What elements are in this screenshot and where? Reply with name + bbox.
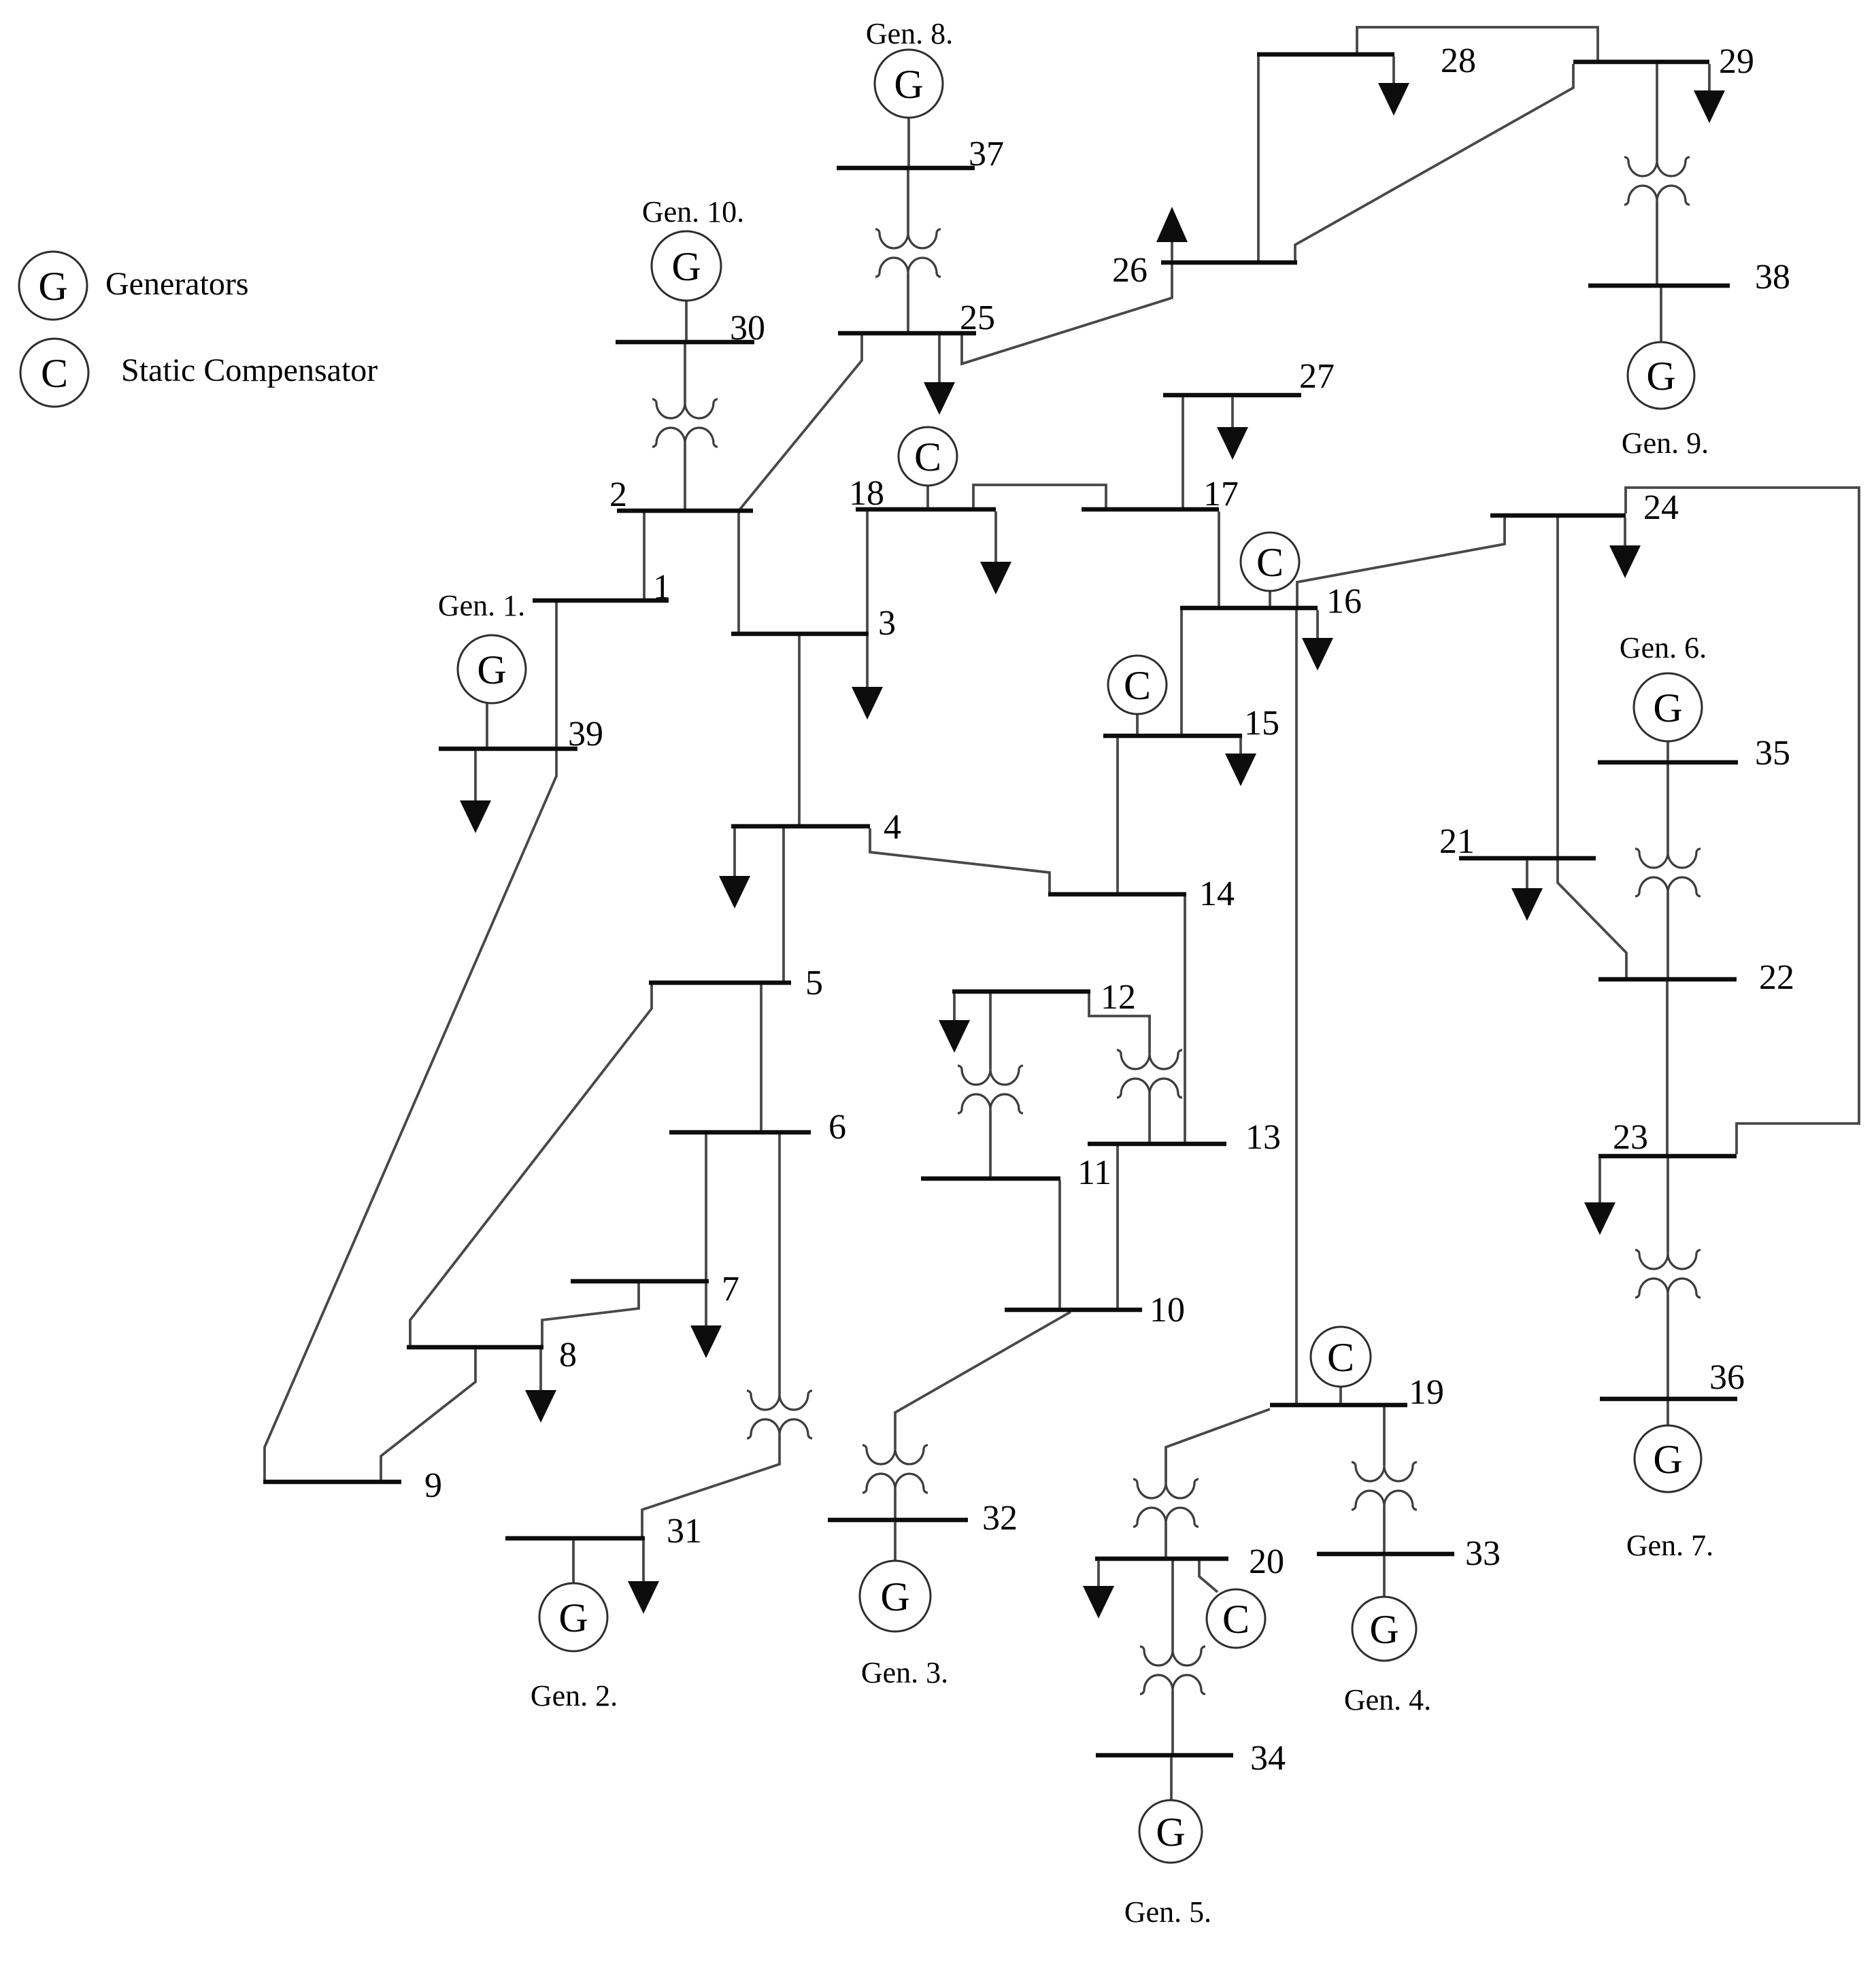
wire 8-9 (381, 1349, 475, 1480)
svg-text:29: 29 (1719, 42, 1754, 81)
svg-text:2: 2 (609, 475, 627, 514)
svg-text:8: 8 (559, 1336, 577, 1374)
svg-text:Gen. 4.: Gen. 4. (1344, 1683, 1431, 1716)
bus 25 bar (838, 331, 976, 336)
load arrow 27 (1217, 397, 1248, 460)
generation arrow 26 (up) (1156, 207, 1188, 260)
svg-text:22: 22 (1759, 958, 1794, 997)
svg-text:25: 25 (960, 299, 995, 337)
wire 39-9 (265, 751, 556, 1480)
bus 2 bar (617, 509, 753, 513)
bus 15 bar (1103, 734, 1242, 739)
bus 12 bar (952, 990, 1090, 994)
svg-text:G: G (880, 1574, 909, 1619)
wire 18-17 (973, 485, 1106, 507)
wire 28-29 (1357, 27, 1598, 60)
transformer 19-33 (1352, 1407, 1417, 1552)
bus 18 bar (856, 507, 996, 512)
wire 7-8 (542, 1283, 639, 1345)
bus 33 bar (1317, 1552, 1454, 1557)
svg-text:30: 30 (730, 309, 765, 348)
svg-text:Generators: Generators (105, 266, 249, 302)
bus 39 bar (439, 747, 577, 751)
svg-text:10: 10 (1150, 1291, 1185, 1330)
wire 26-28 (1257, 56, 1260, 260)
svg-text:28: 28 (1441, 41, 1476, 80)
svg-text:7: 7 (722, 1270, 739, 1308)
wire 4-5 (782, 828, 785, 981)
svg-text:G: G (1653, 686, 1682, 730)
svg-text:C: C (1327, 1335, 1354, 1380)
svg-text:G: G (558, 1595, 588, 1640)
bus 7 bar (571, 1279, 709, 1284)
generator G4 (1352, 1597, 1416, 1661)
svg-text:21: 21 (1439, 822, 1475, 861)
G9 lead (1660, 288, 1662, 342)
wire 4-14 (870, 828, 1050, 892)
bus 35 bar (1598, 760, 1738, 765)
wire 13 link (1148, 1094, 1151, 1142)
svg-text:15: 15 (1244, 704, 1279, 743)
transformer 29-38 (1624, 64, 1690, 284)
G10 lead (685, 301, 688, 340)
bus 21 bar (1459, 856, 1596, 861)
svg-text:27: 27 (1299, 357, 1335, 396)
load arrow 4 (719, 828, 750, 909)
bus 17 bar (1082, 507, 1219, 512)
svg-text:14: 14 (1199, 875, 1235, 913)
bus 1 bar (533, 598, 669, 603)
svg-text:17: 17 (1203, 475, 1239, 513)
wire 13-10 (1116, 1146, 1119, 1308)
wire 31 link (642, 1435, 780, 1536)
svg-text:39: 39 (568, 715, 603, 754)
bus 11 bar (921, 1177, 1060, 1181)
wire 32 link (894, 1489, 897, 1518)
svg-text:24: 24 (1643, 488, 1679, 527)
load arrow 20 (1083, 1561, 1114, 1619)
wire 20 link (1165, 1523, 1167, 1557)
bus 10 bar (1005, 1308, 1142, 1313)
bus 8 bar (407, 1345, 543, 1350)
wire 24-23 (1626, 488, 1859, 1154)
legend compensator symbol (20, 339, 88, 407)
svg-text:Gen. 10.: Gen. 10. (642, 195, 744, 229)
wire 3-4 (798, 636, 801, 824)
wire 15-14 (1116, 738, 1119, 892)
wire 26-29 (1295, 64, 1573, 260)
svg-text:34: 34 (1250, 1739, 1286, 1778)
svg-text:5: 5 (805, 964, 823, 1002)
wire 19-20 link (1166, 1409, 1270, 1483)
svg-text:16: 16 (1326, 582, 1362, 621)
wire 22-23 (1666, 981, 1669, 1154)
svg-text:C: C (1256, 540, 1284, 585)
wire 10-32 link (895, 1312, 1071, 1449)
compensator C18 (899, 427, 957, 486)
compensator C20 (1207, 1589, 1265, 1648)
C16 lead (1269, 591, 1271, 606)
bus 26 bar (1161, 260, 1297, 265)
generator G5 (1139, 1800, 1202, 1863)
svg-text:G: G (1156, 1810, 1185, 1855)
svg-text:31: 31 (667, 1512, 702, 1551)
G7 lead (1666, 1401, 1669, 1425)
svg-text:37: 37 (969, 135, 1004, 173)
svg-text:Gen. 7.: Gen. 7. (1626, 1529, 1713, 1562)
bus 6 bar (669, 1130, 811, 1135)
load arrow 29 (1694, 64, 1725, 123)
bus 5 bar (649, 981, 791, 985)
svg-text:33: 33 (1465, 1534, 1501, 1573)
load arrow 8 (525, 1349, 556, 1423)
generator G7 (1635, 1425, 1701, 1492)
transformer 19-20 coils (1133, 1479, 1199, 1527)
C19 lead (1339, 1387, 1342, 1403)
svg-text:Gen. 2.: Gen. 2. (531, 1679, 618, 1712)
load arrow 16 (1302, 610, 1333, 671)
wire 5-6 (760, 985, 763, 1130)
bus 3 bar (731, 632, 869, 637)
svg-text:Gen. 5.: Gen. 5. (1124, 1895, 1211, 1929)
generator G1 (458, 635, 526, 703)
svg-text:G: G (38, 264, 67, 309)
svg-text:G: G (1646, 354, 1675, 399)
bus 20 bar (1095, 1557, 1228, 1561)
wire 3-18 (866, 511, 869, 632)
svg-text:Gen. 8.: Gen. 8. (866, 17, 953, 50)
bus 23 bar (1598, 1154, 1737, 1159)
svg-text:Gen. 9.: Gen. 9. (1622, 426, 1709, 460)
generator G9 (1628, 342, 1694, 409)
G1 lead (486, 703, 488, 747)
bus 29 bar (1573, 60, 1709, 65)
svg-text:38: 38 (1755, 258, 1790, 297)
G3 lead (894, 1522, 897, 1561)
compensator C15 (1108, 656, 1167, 714)
bus 28 bar (1257, 52, 1394, 57)
svg-text:13: 13 (1245, 1118, 1281, 1157)
bus 32 bar (828, 1518, 968, 1523)
wire 1-39 (555, 603, 558, 747)
load arrow 15 (1225, 738, 1256, 786)
svg-text:19: 19 (1409, 1373, 1444, 1412)
svg-text:36: 36 (1709, 1358, 1745, 1397)
svg-text:G: G (1653, 1437, 1682, 1482)
bus 36 bar (1600, 1397, 1737, 1402)
wire 16-19 (1295, 610, 1298, 1403)
transformer 37-25 (875, 170, 941, 331)
wire 6-31 link (778, 1134, 781, 1394)
svg-text:G: G (1369, 1607, 1398, 1652)
svg-text:1: 1 (653, 568, 671, 607)
load arrow 39 (460, 751, 491, 833)
transformer 35-22 (1635, 764, 1701, 977)
load arrow 23 (1584, 1158, 1615, 1235)
wire 2-3 (737, 513, 740, 632)
svg-text:G: G (894, 62, 923, 107)
wire 1-2 (643, 513, 646, 598)
bus 16 bar (1180, 606, 1318, 611)
load arrow 28 (1378, 56, 1409, 116)
bus 37 bar (837, 166, 975, 171)
wire 24-21-22 (1558, 518, 1626, 977)
transformer 30-2 (652, 344, 718, 509)
load arrow 12 (939, 994, 970, 1053)
svg-text:C: C (1222, 1597, 1250, 1642)
wire 20-C20 link (1199, 1561, 1218, 1592)
G6 lead (1666, 741, 1669, 760)
svg-text:12: 12 (1101, 978, 1136, 1017)
svg-text:G: G (477, 647, 506, 692)
generator G8 (875, 50, 943, 118)
svg-text:20: 20 (1249, 1542, 1284, 1581)
bus 34 bar (1096, 1753, 1233, 1758)
wire 5-8 (410, 985, 652, 1345)
bus 27 bar (1163, 393, 1301, 398)
svg-text:4: 4 (884, 808, 901, 847)
wire 16-24 (1297, 518, 1505, 606)
svg-text:C: C (1124, 663, 1151, 708)
bus 19 bar (1270, 1403, 1407, 1408)
load arrow 25 (924, 335, 955, 415)
bus 38 bar (1588, 284, 1730, 288)
load arrow 31 (628, 1540, 659, 1614)
G2 lead (572, 1540, 575, 1583)
svg-text:C: C (914, 435, 941, 479)
load arrow 7 (690, 1283, 722, 1358)
wire 12-13 link (1089, 994, 1150, 1053)
svg-text:35: 35 (1755, 734, 1790, 773)
bus 4 bar (731, 824, 870, 829)
load arrow 3 (852, 636, 883, 720)
svg-text:23: 23 (1613, 1118, 1648, 1157)
svg-text:6: 6 (828, 1108, 846, 1147)
svg-text:Static Compensator: Static Compensator (121, 352, 378, 388)
legend generator symbol (19, 252, 87, 320)
svg-text:26: 26 (1112, 251, 1148, 290)
wire 17-16 (1218, 511, 1220, 606)
svg-text:11: 11 (1077, 1153, 1111, 1192)
bus 24 bar (1490, 513, 1626, 518)
svg-text:Gen. 3.: Gen. 3. (861, 1656, 948, 1689)
transformer 20-34 (1140, 1561, 1205, 1753)
G8 lead (907, 118, 910, 166)
wire 16-15 (1180, 610, 1183, 734)
G4 lead (1383, 1556, 1386, 1597)
bus 30 bar (616, 340, 754, 345)
load arrow 21 (1511, 860, 1543, 921)
load arrow 24 (1609, 518, 1641, 578)
wire 25-26 (962, 265, 1172, 364)
transformer 10-32 coils (862, 1445, 928, 1493)
G5 lead (1170, 1757, 1173, 1800)
compensator C16 (1241, 532, 1299, 591)
C18 lead (926, 486, 929, 507)
transformer 12-11 (958, 994, 1023, 1177)
wire 14-13 (1184, 896, 1186, 1142)
bus 13 bar (1088, 1142, 1226, 1147)
svg-text:Gen. 1.: Gen. 1. (438, 589, 525, 622)
bus 14 bar (1048, 892, 1186, 897)
bus 31 bar (505, 1536, 645, 1541)
generator G10 (652, 231, 721, 301)
wire 6-7 (705, 1134, 707, 1279)
generator G6 (1634, 673, 1702, 741)
transformer 12-13 coils (1117, 1050, 1182, 1098)
svg-text:C: C (41, 351, 68, 396)
wire 11-10 (1058, 1181, 1061, 1308)
transformer 6-31 coils (747, 1391, 812, 1438)
C15 lead (1136, 714, 1139, 734)
compensator C19 (1311, 1327, 1371, 1387)
svg-text:18: 18 (849, 474, 884, 513)
transformer 23-36 (1635, 1158, 1701, 1397)
svg-text:G: G (671, 244, 701, 289)
wire 17-27 (1182, 397, 1184, 507)
load arrow 18 (980, 511, 1011, 594)
wire 2-25 (739, 335, 862, 511)
generator G3 (860, 1561, 931, 1631)
generator G2 (539, 1583, 607, 1651)
bus 22 bar (1598, 977, 1737, 982)
svg-text:Gen. 6.: Gen. 6. (1620, 631, 1707, 664)
svg-text:3: 3 (878, 604, 896, 643)
svg-text:9: 9 (424, 1466, 442, 1505)
svg-text:32: 32 (982, 1499, 1018, 1538)
bus 9 bar (263, 1480, 401, 1485)
